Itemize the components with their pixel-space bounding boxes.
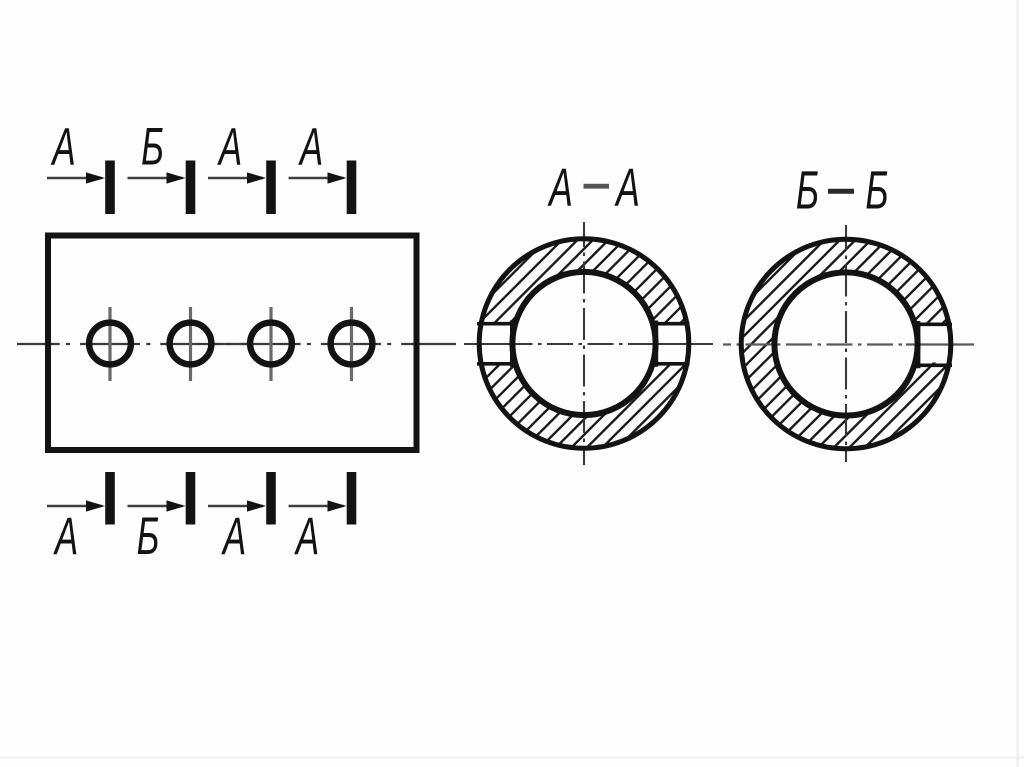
- svg-text:Б: Б: [141, 116, 164, 176]
- svg-text:Б: Б: [865, 160, 888, 220]
- svg-text:Б: Б: [137, 506, 160, 566]
- svg-text:А: А: [547, 158, 573, 218]
- svg-text:Б: Б: [796, 160, 819, 220]
- svg-text:А: А: [297, 116, 323, 176]
- svg-text:А: А: [52, 506, 78, 566]
- svg-text:А: А: [293, 506, 319, 566]
- svg-text:А: А: [614, 158, 640, 218]
- svg-text:А: А: [50, 116, 76, 176]
- svg-text:А: А: [220, 506, 246, 566]
- svg-text:А: А: [216, 116, 242, 176]
